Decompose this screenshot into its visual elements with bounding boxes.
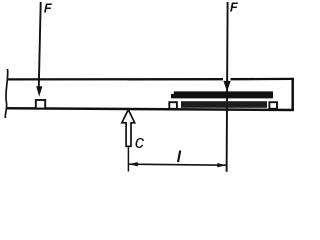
specimen lower plate (181, 101, 267, 108)
right assembly right support square (269, 102, 277, 109)
left force F arrowhead (36, 86, 42, 96)
dimension extension line below C (127, 146, 129, 171)
right assembly left support square (169, 102, 177, 109)
svg-text:F: F (44, 0, 53, 15)
right force F arrowhead (223, 81, 230, 92)
beam right end wall (291, 78, 294, 111)
svg-text:F: F (230, 0, 239, 14)
dimension line l (129, 164, 226, 165)
left force F line (39, 2, 41, 87)
right force F line (also dimension extension line) (227, 2, 228, 172)
svg-text:c: c (135, 131, 145, 152)
dimension left arrowhead (129, 162, 138, 166)
left support block (36, 100, 45, 109)
beam left break line (5, 69, 7, 118)
specimen upper black bar (171, 91, 273, 98)
support C open arrow (122, 110, 135, 147)
svg-text:l: l (177, 149, 182, 166)
beam bottom line (7, 108, 294, 110)
dimension right arrowhead (217, 163, 226, 167)
beam top line (gap at right force arrow) (7, 78, 223, 81)
